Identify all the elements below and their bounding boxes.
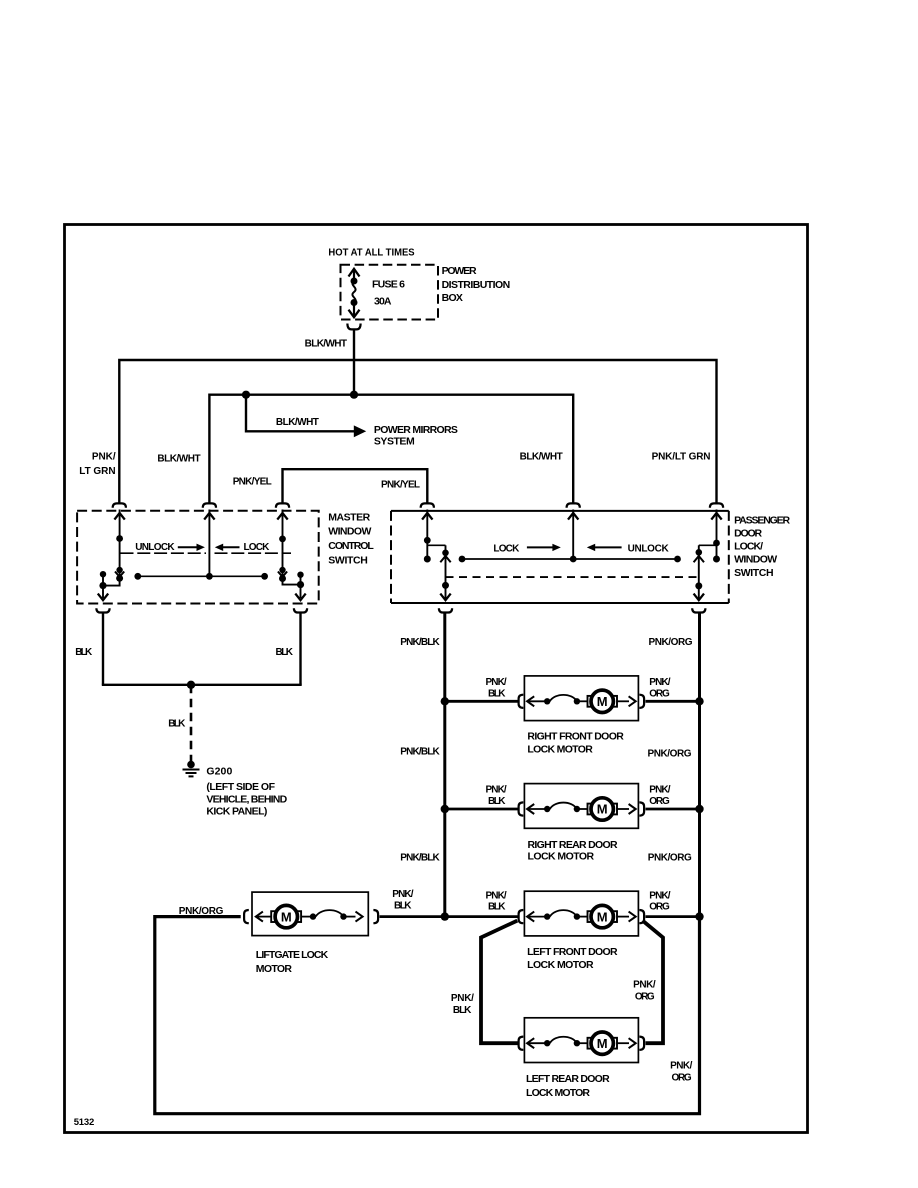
motor right rear door lock [519,784,645,829]
connector into passenger switch pin 1 [421,503,434,507]
svg-text:PNK/: PNK/ [486,785,507,796]
switch travel dashes [121,552,207,554]
passenger switch common bar [462,558,678,560]
svg-text:LOCK: LOCK [493,544,520,555]
svg-text:CONTROL: CONTROL [328,540,374,552]
svg-text:PNK/BLK: PNK/BLK [400,853,440,864]
svg-text:MASTER: MASTER [328,511,370,523]
connector into passenger switch pin 2 [567,503,580,507]
svg-text:BLK: BLK [75,647,93,658]
svg-text:ORG: ORG [635,992,655,1003]
svg-text:LOCK/: LOCK/ [734,541,763,553]
motor left rear door lock [519,1018,645,1063]
svg-text:WINDOW: WINDOW [734,554,777,566]
svg-text:PNK/: PNK/ [633,980,656,991]
svg-text:LOCK: LOCK [244,542,271,553]
label UNLOCK with arrow [587,544,595,551]
passenger switch internal: input 2 [572,510,574,560]
label PNK/ BLK [486,890,507,912]
svg-text:(LEFT SIDE OF: (LEFT SIDE OF [206,781,275,793]
svg-text:PNK/: PNK/ [649,785,670,796]
svg-text:PNK/: PNK/ [670,1061,693,1072]
passenger door lock/window switch box [391,511,729,603]
svg-text:BLK: BLK [488,688,506,699]
svg-text:FUSE 6: FUSE 6 [372,279,405,291]
svg-text:BLK: BLK [488,796,506,807]
label PNK/ BLK [392,889,413,911]
motor liftgate lock [244,892,378,936]
svg-text:BLK: BLK [394,900,412,911]
motor left front door lock [519,891,645,936]
svg-text:BLK: BLK [453,1005,472,1016]
svg-text:POWER: POWER [442,265,477,277]
junction node on BLK/WHT rail at fuse feed [350,391,358,399]
wire PNK/ORG liftgate bottom loop [155,917,700,1114]
svg-text:PNK/: PNK/ [92,452,116,463]
svg-text:SWITCH: SWITCH [328,554,368,566]
label PNK/ ORG [633,980,656,1003]
label POWER MIRRORS SYSTEM [374,424,458,448]
wire to right rear door motor right [646,808,700,811]
junction node right bus / motor 2 [695,805,703,813]
svg-text:30A: 30A [374,296,392,308]
svg-text:G200: G200 [206,766,232,778]
svg-text:UNLOCK: UNLOCK [135,542,175,553]
junction node left bus / motor 1 [441,697,449,705]
wire to left front door motor left [445,915,518,918]
connector into master switch pin 2 [203,503,216,507]
passenger switch internal: input 3 [699,510,722,560]
label LEFT FRONT DOOR LOCK MOTOR [527,946,618,971]
svg-text:PNK/BLK: PNK/BLK [400,637,440,648]
passenger switch internal: input 1 [422,510,445,560]
label PNK/ ORG [649,677,670,699]
label PNK/ ORG [649,785,670,807]
label LOCK with arrow [215,544,223,551]
svg-text:DISTRIBUTION: DISTRIBUTION [442,279,511,291]
wire BLK join [102,684,302,686]
junction node on BLK/WHT rail at power mirrors branch [242,391,250,399]
svg-text:LOCK MOTOR: LOCK MOTOR [528,851,595,863]
label MASTER WINDOW CONTROL SWITCH [328,511,374,566]
svg-text:PNK/: PNK/ [392,889,413,900]
label RIGHT FRONT DOOR LOCK MOTOR [527,731,624,756]
wire BLK left [102,614,104,685]
svg-text:RIGHT FRONT DOOR: RIGHT FRONT DOOR [527,731,624,743]
svg-text:BLK/WHT: BLK/WHT [520,452,563,463]
svg-text:RIGHT REAR DOOR: RIGHT REAR DOOR [528,839,619,851]
wire BLK right [299,614,301,685]
svg-text:WINDOW: WINDOW [328,526,371,538]
label PNK/ ORG [670,1061,693,1084]
wire to right front door motor left [445,700,518,703]
svg-text:ORG: ORG [649,902,670,913]
master switch internal: input 1 wire [98,510,125,601]
svg-text:PNK/: PNK/ [486,677,507,688]
wire rail BLK/WHT (second rail) [209,395,573,503]
svg-text:KICK PANEL): KICK PANEL) [206,806,267,818]
wire PNK/BLK branch to left rear motor (diagonal) [481,921,518,1044]
svg-text:PNK/YEL: PNK/YEL [381,480,420,491]
svg-text:BLK/WHT: BLK/WHT [305,338,347,349]
svg-text:PNK/ORG: PNK/ORG [649,637,693,648]
connector out of master switch left [96,608,109,612]
label PNK/ BLK [486,785,507,807]
master switch internal: input 3 wire [277,510,305,601]
svg-text:ORG: ORG [649,688,670,699]
svg-text:BLK: BLK [488,902,506,913]
label PNK/ BLK [486,677,507,699]
svg-text:PNK/: PNK/ [451,993,474,1004]
wire PNK/ORG bus [698,614,701,1114]
switch link dashed [446,576,699,578]
wire PNK/ORG branch to left rear motor (diagonal) [643,921,663,1044]
master switch internal: input 2 wire [208,510,210,577]
wire BLK/WHT fuse output [353,331,355,395]
svg-text:LEFT REAR DOOR: LEFT REAR DOOR [526,1073,610,1085]
wire rail PNK/LT GRN (top rail) [119,360,716,503]
power distribution box PDB (dashed) [341,265,439,320]
wire BLK to ground (dashed) [190,685,193,762]
svg-text:BLK: BLK [168,719,186,730]
svg-text:LIFTGATE LOCK: LIFTGATE LOCK [256,949,329,961]
svg-text:SWITCH: SWITCH [734,567,774,579]
connector out of passenger switch left [439,608,452,612]
svg-text:BLK/WHT: BLK/WHT [157,453,200,464]
wire to right front door motor right [646,700,700,703]
svg-text:HOT AT ALL TIMES: HOT AT ALL TIMES [328,246,414,258]
connector below fuse box [347,324,360,330]
connector into master switch pin 1 [113,503,126,507]
svg-text:LOCK MOTOR: LOCK MOTOR [527,959,594,971]
wire to right rear door motor left [445,808,518,811]
motor right front door lock [519,676,645,721]
master switch common bar [138,575,265,577]
svg-text:LOCK MOTOR: LOCK MOTOR [527,744,593,756]
svg-text:PNK/ORG: PNK/ORG [648,853,692,864]
svg-text:BLK/WHT: BLK/WHT [276,417,319,428]
svg-text:LEFT FRONT DOOR: LEFT FRONT DOOR [527,946,618,958]
label PASSENGER DOOR LOCK/ WINDOW SWITCH [734,514,790,578]
label PNK/ LT GRN [79,452,116,477]
junction node right bus / motor 3 [695,912,703,920]
label G200 (LEFT SIDE OF VEHICLE, BEHIND KICK PANEL) [206,766,287,818]
connector out of passenger switch right [692,608,705,612]
svg-text:MOTOR: MOTOR [256,963,293,975]
svg-text:VEHICLE, BEHIND: VEHICLE, BEHIND [206,793,287,805]
master window control switch box (dashed) [77,511,319,604]
svg-text:PNK/: PNK/ [649,677,670,688]
connector into passenger switch pin 3 [710,503,723,507]
junction node right bus / motor 1 [695,697,703,705]
svg-text:LT GRN: LT GRN [79,466,115,477]
svg-text:LOCK MOTOR: LOCK MOTOR [526,1087,590,1099]
svg-text:PNK/ORG: PNK/ORG [648,749,692,760]
label POWER DISTRIBUTION BOX [442,265,511,304]
svg-text:PNK/: PNK/ [649,890,670,901]
svg-text:BLK: BLK [276,647,294,658]
passenger switch internal: output 1 [440,545,450,600]
ground G200 [183,761,200,777]
connector out of master switch right [294,608,307,612]
label RIGHT REAR DOOR LOCK MOTOR [528,839,619,863]
svg-text:DOOR: DOOR [734,528,762,540]
svg-text:5132: 5132 [74,1117,95,1128]
svg-text:PNK/: PNK/ [486,890,507,901]
label PNK/ BLK [451,993,474,1016]
label LEFT REAR DOOR LOCK MOTOR [526,1073,610,1099]
svg-text:SYSTEM: SYSTEM [374,436,415,448]
svg-text:UNLOCK: UNLOCK [628,544,670,555]
svg-text:PNK/BLK: PNK/BLK [400,747,440,758]
svg-text:ORG: ORG [649,796,670,807]
wire liftgate to PNK/BLK bus [380,915,445,918]
svg-text:BOX: BOX [442,292,463,304]
svg-text:PNK/LT GRN: PNK/LT GRN [652,452,711,463]
label PNK/ ORG [649,890,670,912]
svg-text:PNK/YEL: PNK/YEL [233,477,272,488]
wire PNK/BLK bus [443,614,446,917]
svg-text:PNK/ORG: PNK/ORG [179,906,224,917]
wire BLK/WHT branch to power mirrors [246,395,355,432]
svg-text:POWER MIRRORS: POWER MIRRORS [374,424,458,436]
passenger switch internal: output 2 [694,545,704,600]
svg-text:ORG: ORG [672,1073,692,1084]
wire to left front door motor right [646,915,700,918]
wire PNK/YEL jumper master to passenger [283,469,428,503]
svg-text:PASSENGER: PASSENGER [734,514,790,526]
label LIFTGATE LOCK MOTOR [256,949,329,975]
junction node left bus / motor 3 [441,912,449,920]
junction node BLK [187,681,195,689]
fuse F6 FUSE 6 30A [349,269,360,317]
junction node left bus / motor 2 [441,805,449,813]
connector into master switch pin 3 [276,503,289,507]
